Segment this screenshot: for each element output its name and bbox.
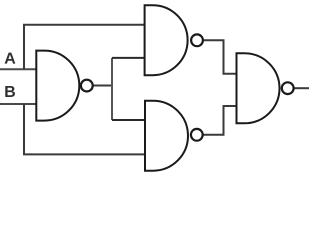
wire fanout to U2 bottom input <box>112 57 145 59</box>
nand gate U1 body <box>36 51 79 121</box>
wire branch A to U2 top input <box>24 25 145 70</box>
nand gate U1 inversion bubble <box>81 80 93 92</box>
wire U3 output to U4 bottom input <box>203 106 237 135</box>
wire final output <box>295 87 310 89</box>
wire U1 output <box>93 85 112 87</box>
wire input B <box>0 103 36 105</box>
nand gate U4 inversion bubble <box>282 82 294 94</box>
nand gate U3 body <box>145 101 188 171</box>
wire input A <box>0 68 36 70</box>
wire fanout to U3 top input <box>112 119 145 121</box>
nand gate U4 body <box>237 53 280 123</box>
input label B <box>5 86 15 97</box>
wire vertical fanout of U1 output <box>111 58 113 120</box>
input label A <box>5 53 16 64</box>
nand gate U2 inversion bubble <box>191 34 203 46</box>
wire branch B to U3 bottom input <box>24 104 145 154</box>
nand gate U3 inversion bubble <box>191 129 203 141</box>
nand gate U2 body <box>145 5 188 75</box>
wire U2 output to U4 top input <box>203 40 237 74</box>
